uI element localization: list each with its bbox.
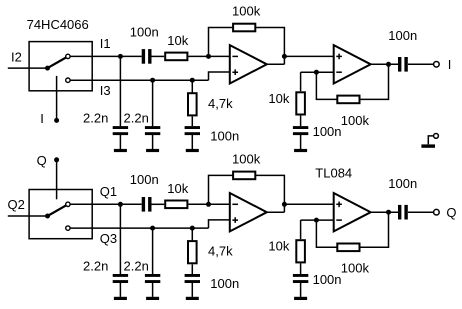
ground (cap 3) [186,149,199,152]
ground (cap 2) [146,149,159,152]
resistor 100k (feedback second op-amp) [337,96,359,104]
wire 10k shunt to 100n cap [300,264,302,275]
svg-text:Q2: Q2 [8,197,25,212]
resistor 10k (shunt) [296,92,305,114]
svg-text:2.2n: 2.2n [83,259,108,274]
wire down to 4.7k resistor [191,80,193,92]
wire I3 net [70,79,208,81]
wire shunt cap to ground [300,135,302,149]
wire cap to 10k [152,55,165,57]
svg-text:I1: I1 [100,36,111,51]
node first stage output [282,54,287,59]
switch throw contact I3 [66,78,70,82]
control node Q [54,157,59,162]
ground (cap 3) [186,297,199,300]
wire down to 10k shunt [300,220,302,239]
resistor 100k (feedback second op-amp) [337,244,359,252]
wire Q3 net [70,227,208,229]
svg-text:I2: I2 [11,49,22,64]
analog switch box U2 (74HC4066 second section) [29,190,92,239]
wire feedback loop second op-amp [316,212,388,247]
wire cap to 10k [152,203,165,205]
switch throw contact Q3 [66,226,70,230]
svg-text:10k: 10k [167,181,188,196]
svg-text:2.2n: 2.2n [124,259,149,274]
svg-text:100n: 100n [210,276,239,291]
resistor 4,7k [188,241,197,263]
wire cap2 to ground [152,283,154,297]
wire down to second 2.2n cap [152,80,154,126]
ground (cap 1) [114,297,127,300]
wire down to 10k shunt [300,72,302,91]
junction I1/C2.2n [118,54,123,59]
wire output cap to terminal [408,63,434,65]
svg-text:Q3: Q3 [100,231,117,246]
junction I3/C2.2n [150,78,155,83]
svg-text:100n: 100n [388,28,417,43]
svg-text:10k: 10k [167,33,188,48]
node op-amp B inverting input [314,70,319,75]
wire feedback loop first op-amp [209,28,285,65]
svg-text:I3: I3 [100,83,111,98]
wire cap2 to ground [152,135,154,149]
node op-amp A inverting input [206,202,211,207]
switch pivot node [45,66,50,71]
svg-text:4,7k: 4,7k [208,96,233,111]
wire 10k to op-amp inverting input [188,55,229,57]
capacitor 100n (series input) [142,197,145,212]
switch arm (pole) [48,205,67,216]
op-amp B (second stage) [334,45,371,83]
op-amp A (first stage) [230,193,267,231]
wire op-amp B output [371,63,398,65]
svg-text:100k: 100k [232,4,261,19]
switch throw contact Q1 [66,202,70,206]
ground (reference terminal) [421,144,435,147]
resistor 10k (series) [165,53,187,61]
junction Q3/R4.7k [190,226,195,231]
capacitor 100n (series input) [142,49,145,64]
svg-text:4,7k: 4,7k [208,244,233,259]
node output Q [386,210,391,215]
svg-text:100n: 100n [313,124,342,139]
wire cap3 to ground [191,283,193,297]
terminal ground reference [434,134,439,139]
control node I [54,118,59,123]
ground (cap 1) [114,149,127,152]
svg-text:Q: Q [37,153,47,168]
capacitor 100n (series output) [398,205,401,220]
svg-text:Q: Q [446,205,456,220]
resistor 4,7k [188,93,197,115]
wire op-amp A output [267,211,285,213]
junction Q1/C2.2n [118,202,123,207]
capacitor 100n (shunt) [293,126,308,129]
svg-text:2.2n: 2.2n [124,111,149,126]
resistor 100k (feedback first op-amp) [233,172,255,180]
svg-text:100n: 100n [313,272,342,287]
wire down to first 2.2n cap [119,56,121,126]
svg-text:TL084: TL084 [315,165,352,180]
resistor 10k (shunt) [296,240,305,262]
svg-text:100k: 100k [232,152,261,167]
capacitor 100n (under 4,7k) [185,274,200,277]
wire down to second 2.2n cap [152,228,154,274]
ground (shunt cap) [294,149,307,152]
svg-text:100k: 100k [341,113,370,128]
wire op-amp B inverting input [301,219,334,221]
node op-amp A inverting input [206,54,211,59]
terminal Q output [434,209,440,215]
capacitor 2.2n (first) [113,126,128,129]
wire op-amp B output [371,211,398,213]
wire output cap to terminal [408,211,434,213]
wire 10k shunt to 100n cap [300,116,302,127]
wire cap1 to ground [119,283,121,297]
capacitor 2.2n (first) [113,274,128,277]
resistor 10k (series) [165,201,187,209]
control stub wire to I [56,76,58,121]
node op-amp B inverting input [314,218,319,223]
op-amp A (first stage) [230,45,267,83]
wire op-amp B inverting input [301,71,334,73]
svg-text:2.2n: 2.2n [83,111,108,126]
wire ground reference terminal [428,136,433,145]
wire I1 net [70,55,142,57]
svg-text:Q1: Q1 [100,184,117,199]
svg-text:100k: 100k [341,261,370,276]
svg-text:10k: 10k [268,239,289,254]
svg-text:10k: 10k [268,91,289,106]
wire cap1 to ground [119,135,121,149]
svg-text:I: I [40,111,44,126]
capacitor 100n (under 4,7k) [185,126,200,129]
wire to op-amp B non-inverting input [284,203,333,205]
terminal I output [434,62,440,68]
capacitor 2.2n (second) [145,126,160,129]
capacitor 100n (shunt) [293,274,308,277]
junction I3/R4.7k [190,78,195,83]
junction Q3/C2.2n [150,226,155,231]
ground (cap 2) [146,297,159,300]
wire down to first 2.2n cap [119,204,121,274]
wire input Q2 [8,215,48,217]
wire shunt cap to ground [300,283,302,297]
wire down to 4.7k resistor [191,228,193,240]
wire op-amp A output [267,63,285,65]
svg-text:I: I [448,57,452,72]
ground (shunt cap) [294,297,307,300]
wire 4.7k to 100n cap [191,117,193,127]
capacitor 100n (series output) [398,57,401,72]
switch arm (pole) [48,58,67,69]
wire input I2 [8,67,48,69]
analog switch box U1 (74HC4066) [29,42,92,91]
control stub wire to Q [56,160,58,200]
svg-text:100n: 100n [130,172,159,187]
wire Q1 net [70,203,142,205]
switch throw contact I1 [66,54,70,58]
wire cap3 to ground [191,135,193,149]
node first stage output [282,202,287,207]
op-amp B (second stage) [334,193,371,231]
wire feedback loop second op-amp [316,64,388,99]
svg-text:100n: 100n [130,24,159,39]
wire feedback loop first op-amp [209,175,285,212]
capacitor 2.2n (second) [145,274,160,277]
wire to op-amp B non-inverting input [284,55,333,57]
wire I3 to op-amp non-inverting input [209,72,230,80]
svg-text:74HC4066: 74HC4066 [27,17,89,32]
wire 10k to op-amp inverting input [188,203,229,205]
switch pivot node [45,214,50,219]
wire 4.7k to 100n cap [191,264,193,274]
svg-text:100n: 100n [388,176,417,191]
resistor 100k (feedback first op-amp) [233,24,255,32]
node output I [386,62,391,67]
wire Q3 to op-amp non-inverting input [209,220,230,228]
svg-text:100n: 100n [210,128,239,143]
